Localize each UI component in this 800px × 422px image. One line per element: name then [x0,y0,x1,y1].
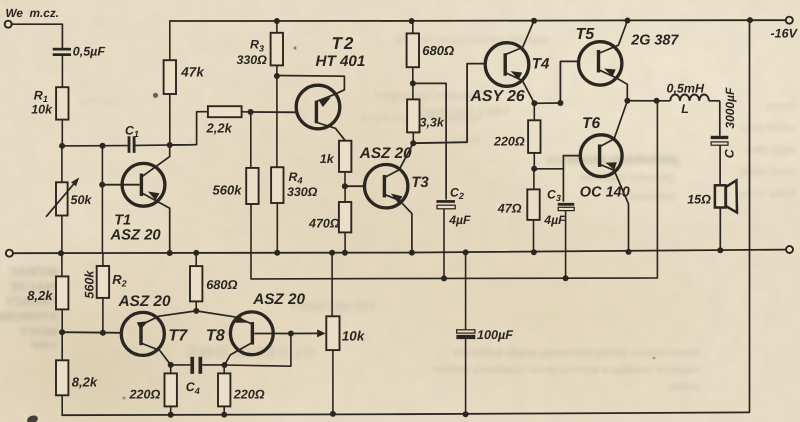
wire node B down to T1 base and rail [101,146,103,253]
svg-text:8,2k: 8,2k [27,288,53,303]
transistor T1 ASZ 20 [122,163,165,206]
svg-text:C: C [723,148,737,158]
wire node J to T6 base / C3 [534,156,581,201]
svg-text:10k: 10k [342,328,366,343]
paper speck [294,47,297,50]
label C4 [186,380,200,396]
label C2 [450,185,464,201]
svg-text:T7: T7 [168,327,188,345]
junction T1 emitter / middle rail [167,250,173,256]
paper speck [653,357,656,360]
node D (2,2k / 560k / T2 base) [248,109,254,115]
label 100µF [477,328,513,342]
svg-text:T8: T8 [206,327,225,345]
transistor T8 ASZ 20 (mirrored) [230,312,273,355]
node C (C1 / 47k / T1 collector / 2,2k) [167,142,173,148]
svg-text:560k: 560k [83,270,97,299]
svg-text:2G 387: 2G 387 [630,32,679,48]
junction 10k top / middle rail [329,250,335,256]
transistor T7 ASZ 20 [121,312,164,355]
junction 470Ω / middle rail [342,250,348,256]
terminal input common (left, middle rail) [6,250,13,257]
resistor 680Ω (top) [407,21,419,84]
wire T3 base [345,185,365,187]
svg-text:3000µF: 3000µF [723,87,737,129]
wire node D to T2 base [251,111,297,113]
junction top rail / right vertical [747,17,753,23]
svg-text:330Ω: 330Ω [287,185,318,199]
svg-text:T5: T5 [576,26,596,43]
transistor T4 ASY 26 [485,43,529,87]
svg-text:220Ω: 220Ω [493,134,525,148]
resistor 3,3k [407,83,419,143]
wire T1 emitter to middle rail [143,192,170,254]
junction C2 / feedback line [441,275,447,281]
node F (1k / 470Ω / T3 base) [342,183,348,189]
node E (R3 bottom / T2 emitter / R4) [274,73,280,79]
label 680Ω (bottom) [206,277,237,292]
label 3,3k [420,115,445,129]
label ASZ 20 (T8) [252,291,305,308]
node J (220Ω / 47Ω / T6 base line) [531,166,537,172]
wire T7 collector to node P [142,344,171,365]
label 220Ω (T4) [493,134,525,148]
label 1k [320,152,335,166]
wire bottom return rail [62,412,749,415]
resistor 220Ω (bottom left) [165,365,177,415]
capacitor C3 4µF [558,203,575,211]
svg-text:T2: T2 [332,34,356,53]
label R1 [34,88,48,104]
wire C2 to feedback line [443,209,445,279]
junction feedback line / inductor wire [654,98,660,104]
label T2 [332,34,356,53]
potentiometer 50k [46,146,79,253]
svg-text:2,2k: 2,2k [206,120,233,135]
label 0,5mH [667,81,705,95]
svg-text:100µF: 100µF [477,328,513,342]
label T8 [206,327,225,345]
junction 47Ω / middle rail [531,249,537,255]
wire C3 to feedback line [565,211,567,279]
wire inductor to C 3000µF [719,101,721,136]
label T1 [114,213,131,229]
capacitor C 3000µF [711,136,729,145]
junction 100µF / bottom rail [463,411,469,417]
resistor R1 10k [56,87,68,119]
node I (T4 emitter / T5 base / 220Ω) [531,100,537,106]
resistor 560k (mid) [246,112,258,204]
label C (3000µF) [723,148,737,158]
resistor 220Ω (T4 emitter) [528,103,540,169]
svg-text:ASZ 20: ASZ 20 [118,293,171,310]
label HT 401 [316,53,366,70]
junction 220Ω right / bottom rail [221,412,227,418]
svg-text:10k: 10k [31,103,53,117]
wire C1 to T1 collector node [136,144,197,147]
junction node B column / middle rail (crossing, no dot) [0,0,1,1]
label T4 [532,56,550,73]
svg-text:4µF: 4µF [448,213,471,227]
label 0,5µF [73,45,106,59]
node G (680Ω / 3,3k / C2 feed) [410,80,416,86]
svg-text:We m.cz.: We m.cz. [6,6,60,20]
svg-text:-16V: -16V [771,27,799,41]
terminal output common (right, middle rail) [786,246,793,253]
wire middle common rail [13,250,787,254]
svg-text:4µF: 4µF [543,213,566,227]
label ASZ 20 (T7) [118,293,171,310]
svg-text:1k: 1k [320,152,335,166]
label 47k [180,65,205,80]
svg-text:0,5mH: 0,5mH [667,81,705,95]
potentiometer 10k [291,253,340,414]
label 220Ω (bottom left) [129,387,161,401]
svg-text:T4: T4 [532,56,550,73]
wire T8 emitter to node N [196,311,251,324]
resistor 1k [339,141,351,172]
junction 680Ω bottom / middle rail [193,250,199,256]
wire right-side vertical (top rail to bottom rail) [749,20,751,412]
wire T4 collector to supply rail [506,21,534,55]
wire node G to C2 [413,83,446,199]
wire T5 collector to supply rail [600,21,628,54]
svg-text:330Ω: 330Ω [237,53,268,67]
node N (680Ω / T7 emitter / T8 emitter) [193,308,199,314]
wire node I to T5 base drop [534,102,560,104]
wire T5 base [560,61,578,103]
label 2G 387 [630,32,679,48]
resistor 8,2k (upper) [56,253,68,332]
node P (T7 collector / 220Ω / C4) [168,362,174,368]
wire T5 emitter to node K [600,69,628,101]
junction R2 / T7 base wire [100,330,106,336]
svg-text:T1: T1 [114,213,131,229]
node K (T5 emitter / T6 collector / inductor) [624,98,630,104]
resistor 8,2k (lower) [56,332,68,415]
label 560k (R2, rotated) [83,270,97,299]
capacitor C4 [171,357,225,374]
resistor 680Ω (bottom) [190,253,202,311]
label 10k [342,328,366,343]
label 50k [71,193,93,207]
wire T7 base [62,331,121,334]
svg-text:470Ω: 470Ω [308,216,340,230]
svg-text:220Ω: 220Ω [129,387,161,401]
svg-text:220Ω: 220Ω [233,387,265,401]
label 15Ω [687,192,711,206]
wire node Q to T8 base node R [225,334,291,367]
label 560k (mid) [213,182,243,197]
svg-text:T3: T3 [411,174,429,191]
label We m.cz. (input) [6,6,60,20]
label C1 [125,123,139,139]
wire 0,5µF to R1 [61,56,63,87]
wire T7 emitter to node N [137,311,197,330]
wire feedback line (560k bottom to inductor node) [251,101,657,279]
node H (3,3k bottom / T3 collector / T4 base line) [410,140,416,146]
capacitor C1 [128,136,136,153]
resistor 470Ω [339,186,351,253]
svg-text:ASY 26: ASY 26 [470,88,525,105]
label 4µF (C2) [448,213,471,227]
label T7 [168,327,188,345]
node T5 base drop [557,100,563,106]
label T6 [582,115,600,132]
wire top -16V supply rail [170,19,786,22]
svg-text:0,5µF: 0,5µF [73,45,106,59]
junction T5 collector / supply rail [625,18,631,24]
wire T2 collector to 1k [317,123,346,141]
label 8,2k (lower) [72,374,98,389]
ink blob bottom-left [26,414,39,422]
node R (T8 base junction) [288,331,294,337]
junction 10k bottom / bottom rail [330,411,336,417]
label T3 [411,174,429,191]
label 330Ω (R3) [237,53,268,67]
capacitor C2 4µF [436,200,455,209]
terminal input We [5,21,12,28]
label ASZ 20 (T3) [359,145,412,162]
svg-text:47Ω: 47Ω [497,201,522,215]
junction R4 / middle rail [274,250,280,256]
junction 100µF / middle rail [463,249,469,255]
node B (T1 base tap) [100,143,106,149]
label ASZ 20 (T1) [110,228,162,244]
wire R1 to node A [61,120,63,146]
wire T6 collector to node K [601,101,628,146]
label 8,2k (upper) [27,288,53,303]
label 3000µF [723,87,737,129]
label L [681,102,689,116]
resistor 47k [164,21,176,145]
label C3 [547,187,561,203]
wire input terminal to C 0.5uF [11,24,62,48]
label 10k [31,103,53,117]
svg-text:15Ω: 15Ω [687,192,711,206]
label T5 [576,26,596,43]
wire T8 base to node R [254,333,291,335]
resistor 220Ω (bottom right) [218,365,230,415]
junction R3 top / supply rail [274,18,280,24]
label 680Ω (top) [422,43,454,58]
wire T2 emitter to node E [277,76,344,108]
svg-text:ASZ 20: ASZ 20 [252,291,305,308]
svg-text:ASZ 20: ASZ 20 [359,145,412,162]
wire T3 collector to node H [386,143,414,177]
label 2,2k [206,120,233,135]
transistor T6 OC140 [580,135,622,177]
wire T3 emitter to middle rail [386,194,412,253]
wire node H to T4 base [413,64,485,144]
paper speck [153,93,158,98]
label R3 [250,38,264,54]
transistor T2 HT401 [296,85,340,129]
node A (R1/pot/C1 wire) [59,143,65,149]
label 4µF (C3) [543,213,566,227]
node T1 base [99,182,105,188]
svg-text:50k: 50k [71,193,93,207]
wire node A to T1 base node and C1 [62,145,128,147]
svg-text:8,2k: 8,2k [72,374,98,389]
wire T1 base [102,184,139,186]
label R2 [112,272,126,289]
svg-text:OC 140: OC 140 [580,185,630,201]
svg-text:560k: 560k [213,182,243,197]
capacitor 100µF [456,252,475,414]
wire 1k to node F [344,172,346,186]
capacitor 0,5µF [53,48,71,56]
label R4 [289,170,303,186]
svg-text:3,3k: 3,3k [420,115,445,129]
wire T1 collector to node C [143,145,170,176]
resistor R3 330Ω [271,21,283,76]
label 330Ω (R4) [287,185,318,199]
wire R3-R4 column [276,76,278,167]
inductor L 0,5mH [670,94,720,100]
resistor 47Ω [527,169,539,253]
label 47Ω [497,201,522,215]
junction T3 emitter / middle rail [409,250,415,256]
label 220Ω (bottom right) [233,387,265,401]
node M (8,2k divider / T7 base) [59,329,65,335]
svg-text:680Ω: 680Ω [206,277,237,292]
junction T6 emitter / middle rail [626,249,632,255]
resistor R4 330Ω [271,167,283,253]
resistor 2,2k [170,106,251,145]
svg-text:ASZ 20: ASZ 20 [110,228,162,244]
resistor R2 560k [97,253,109,333]
paper speck [122,396,126,400]
speaker 15Ω [715,180,737,212]
svg-text:680Ω: 680Ω [422,43,454,58]
wire T8 collector to node Q [225,343,252,365]
label -16V [771,27,799,41]
terminal -16V [786,17,793,24]
wire T4 emitter to node I [506,71,534,103]
svg-text:47k: 47k [180,65,205,80]
wire 3000µF to speaker [719,145,721,185]
node Q (T8 collector / 220Ω / C4 / base feedback) [222,362,228,368]
label OC 140 [580,185,630,201]
wire speaker to middle rail [719,208,721,251]
wire T6 emitter to middle rail [601,162,629,252]
svg-text:L: L [681,102,689,116]
junction 220Ω left / bottom rail [168,412,174,418]
svg-text:HT 401: HT 401 [316,53,366,70]
junction 680Ω top / supply rail [409,18,415,24]
wire node K to inductor [627,100,670,102]
transistor T5 2G387 [579,42,622,85]
junction T4 collector / supply rail [531,18,537,24]
junction speaker / middle rail [717,247,723,253]
junction pot / middle rail [58,250,64,256]
junction C3 / feedback line [563,275,569,281]
svg-text:T6: T6 [582,115,600,132]
label 470Ω [308,216,340,230]
transistor T3 ASZ 20 [365,165,408,208]
label ASY 26 [470,88,525,105]
